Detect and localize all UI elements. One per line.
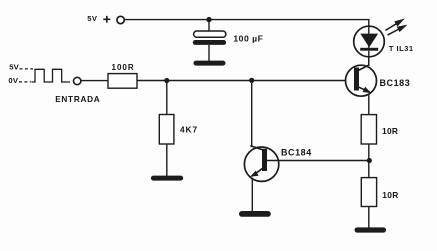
wire node to Q2 collector: [251, 80, 253, 146]
LED D1 TIL31: [354, 26, 385, 66]
wire Q2 base to 10R junction: [267, 160, 370, 162]
svg-text:10R: 10R: [382, 126, 398, 136]
svg-text:BC183: BC183: [380, 78, 411, 88]
capacitor C1 100uF positive plate: [194, 31, 226, 37]
node junction base rail / Q2 collector: [249, 78, 254, 83]
node junction R1 / R2: [164, 78, 169, 83]
label 5V input level: [9, 63, 19, 72]
svg-text:5V: 5V: [9, 63, 19, 72]
input waveform high-level dashed line: [20, 68, 34, 70]
wire Q2 emitter to ground: [251, 178, 253, 211]
wire Q1 collector to LED cathode: [368, 56, 370, 65]
wire R2 to ground: [166, 144, 168, 176]
node junction R3 / R4 / Q2 base: [367, 158, 372, 163]
wire top rail from 5V terminal to LED anode: [124, 20, 368, 27]
node V+ terminal 5V: [117, 16, 124, 23]
label 4K7: [180, 125, 198, 135]
svg-text:BC184: BC184: [281, 148, 312, 158]
node input terminal ENTRADA: [74, 77, 81, 84]
svg-text:4K7: 4K7: [180, 125, 198, 135]
svg-text:5V: 5V: [87, 14, 98, 23]
wire input terminal to R1: [81, 80, 108, 82]
ground Q2: [239, 211, 271, 217]
capacitor C1 100uF negative plate: [193, 40, 226, 45]
LED light arrow 1: [385, 16, 406, 30]
wire Q1 emitter to R3: [368, 94, 370, 115]
svg-text:0V: 0V: [8, 76, 18, 85]
wire capacitor bottom lead: [208, 45, 210, 61]
input square wave: [32, 69, 71, 82]
resistor R4 10R: [361, 178, 376, 207]
resistor R3 10R: [361, 115, 376, 144]
label 100R: [112, 63, 135, 72]
wire R4 to ground: [368, 206, 370, 228]
svg-text:ENTRADA: ENTRADA: [55, 95, 100, 104]
wire R1 to BC183 base: [137, 80, 355, 82]
resistor R1 100R: [108, 74, 137, 89]
label ENTRADA: [55, 95, 100, 104]
label 10R upper: [382, 126, 398, 136]
label BC183: [380, 78, 411, 88]
ground capacitor: [194, 61, 226, 66]
svg-text:10R: 10R: [382, 190, 398, 200]
wire node to R2: [166, 81, 168, 115]
label TIL31: [389, 44, 414, 53]
transistor Q2 BC184: [244, 146, 278, 182]
wire capacitor top lead: [208, 20, 210, 32]
resistor R2 4K7: [159, 115, 174, 145]
LED light arrow 2: [388, 22, 409, 35]
label 100uF: [233, 33, 263, 43]
label 5V +: [87, 14, 98, 23]
label 0V input level: [8, 76, 18, 85]
label 10R lower: [382, 190, 398, 200]
ground R4: [355, 227, 387, 232]
svg-text:100 µF: 100 µF: [233, 33, 263, 43]
wire R3 to R4: [368, 144, 370, 178]
transistor Q1 BC183: [346, 65, 377, 96]
svg-text:100R: 100R: [112, 63, 135, 72]
svg-text:T IL31: T IL31: [389, 44, 414, 53]
ground R2: [151, 176, 183, 181]
input waveform low-level dashed line: [19, 81, 31, 83]
label BC184: [281, 148, 312, 158]
node junction top rail / capacitor: [206, 17, 211, 22]
